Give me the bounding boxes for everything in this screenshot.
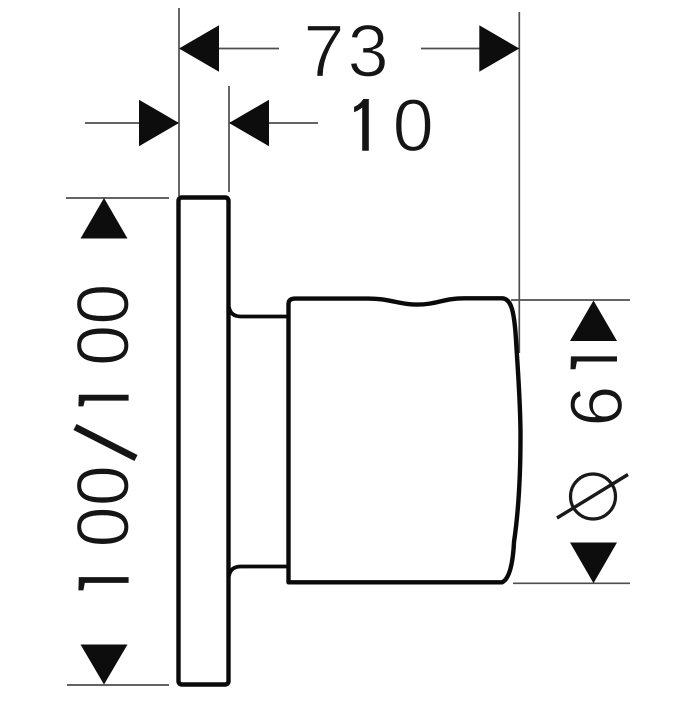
extension line top-right (y=300) (511, 299, 630, 301)
arrowhead dia61 down (570, 543, 617, 584)
fraction slash of 100/100 (75, 427, 136, 458)
arrowhead 73 left (179, 25, 219, 71)
dimension line 10 right segment (230, 122, 318, 124)
arrowhead 10 right (229, 100, 269, 146)
extension line bottom-right (y=583.3) (513, 582, 630, 584)
svg-text:0: 0 (393, 84, 434, 167)
handle knob outline (289, 298, 521, 582)
arrowhead dia61 up (570, 301, 617, 342)
extension line left (x=179) (178, 8, 180, 196)
dimension line 10 left segment (85, 122, 178, 124)
extension line bottom-left (y=685) (67, 684, 169, 686)
arrowhead 100/100 up (81, 198, 128, 239)
extension line plate-right (x=229) (228, 86, 230, 192)
dimension line 73 left segment (180, 48, 279, 50)
extension line top-left (y=198) (66, 197, 169, 199)
svg-text:00: 00 (62, 284, 145, 366)
arrowhead 73 right (479, 25, 519, 71)
arrowhead 100/100 down (81, 645, 128, 685)
sleeve top line (229, 307, 289, 317)
svg-text:6: 6 (555, 386, 638, 427)
extension line knob-front (x=519) (518, 12, 520, 353)
diameter symbol circle (571, 474, 616, 519)
svg-text:73: 73 (303, 10, 391, 93)
sleeve bottom line (229, 567, 289, 577)
wall plate (escutcheon, side view) (179, 198, 229, 685)
diameter symbol slash (557, 475, 628, 519)
svg-text:00: 00 (62, 465, 145, 547)
arrowhead 10 left (139, 100, 179, 146)
dimension line 73 right segment (421, 48, 518, 50)
